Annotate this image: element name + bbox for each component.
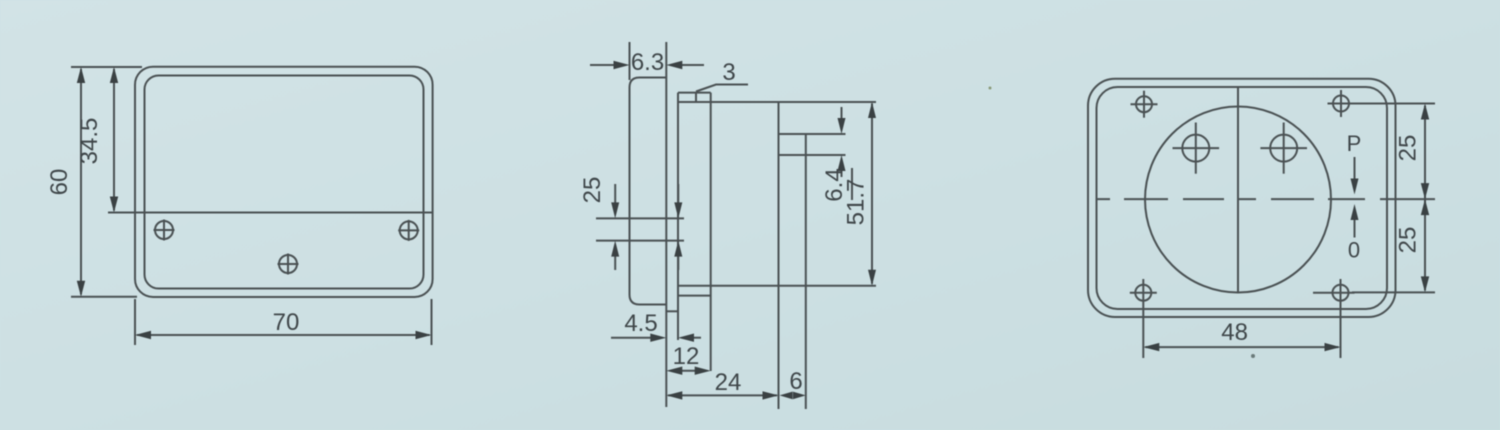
screw S1 circle [155,221,173,239]
dim 4.5 arrow left [678,334,694,342]
corner screw hole BL circle [1135,285,1151,301]
back outer case outline [1088,79,1396,317]
dim 51.7 arrow down [868,270,876,286]
bottom snap tab bottom edge [678,295,711,297]
dim 48 extension left [1142,279,1144,358]
dim 25 extension top [1352,103,1435,105]
corner screw hole TL circle [1136,96,1152,112]
dim 6.3 arrow left (tip on flange) [666,61,682,69]
dim 25 arrows right pair [674,202,682,218]
dim 60 extension line bottom [71,296,137,298]
svg-text:70: 70 [273,309,300,336]
screw S1 cross [154,229,175,231]
dust speck 2 [1251,354,1255,358]
dim 25 arrow tails [614,184,616,203]
dim 6.4 arrow tails [841,107,843,119]
dim 48 extension right [1340,279,1342,358]
back dashed centre line [1097,198,1365,200]
dim 24 line [668,394,777,396]
front inner bezel outline [145,76,424,289]
front scale divider line [108,212,433,214]
side bezel outline [630,78,667,305]
dim 60 arrow down [77,281,85,297]
svg-text:25: 25 [1395,135,1422,162]
flange-body tick [666,310,678,312]
dim 48 arrow left [1143,343,1159,351]
svg-text:0: 0 [1348,238,1360,263]
leader line for 3 [696,85,748,92]
dim 60 arrow up [77,67,85,83]
stud hole left circle [1182,135,1209,162]
svg-text:6.3: 6.3 [631,49,664,76]
dim 70 arrow right [416,331,432,339]
terminal top line [779,133,846,135]
svg-text:25: 25 [579,177,606,204]
dim 34.5 arrow up [110,67,118,83]
dim 25 extension middle [1380,198,1435,200]
dim 6.4 underline [851,168,853,200]
dim 70 extension line left [134,299,136,345]
dust speck 1 [989,87,992,90]
dim 25 arrows left pair [611,202,619,218]
dim 6.3 arrow tails [590,64,616,66]
svg-text:25: 25 [1395,227,1422,254]
back big circle [1145,107,1331,293]
dim 6.4 arrow down [838,118,846,134]
dim 60 extension line top [71,66,142,68]
dim 70 line [137,334,430,336]
dim 25 arrow down mid [1421,183,1429,199]
dim 25 arrow up top [1421,104,1429,120]
back inner case outline [1097,87,1388,309]
dim 34.5 arrow down [110,197,118,213]
pointer window top line (dim 25) [596,217,684,219]
bezel left extension line (dim 6.3) [629,42,631,80]
svg-text:3: 3 [722,59,735,86]
dim 25 arrow down bottom [1421,276,1429,292]
front outer case outline [135,67,433,297]
dim 48 line [1145,346,1338,348]
dim 12 arrow left [666,367,682,375]
dim 25 line [1424,106,1426,291]
svg-text:6: 6 [789,368,802,395]
back center vertical line [1237,88,1239,293]
dim 12 line [680,370,697,372]
flange line [665,42,667,407]
0 pointer arrow up [1351,204,1359,220]
svg-text:24: 24 [715,369,742,396]
dim 24 arrow right [763,391,779,399]
screw S2 circle [400,221,418,239]
dim 25 extension bottom [1352,291,1435,293]
screw S2 cross [398,229,419,231]
body top edge [678,101,876,103]
dim 12 arrow right [695,367,711,375]
top snap tab divider [695,93,697,103]
dim 48 arrow right [1325,343,1341,351]
dim 51.7 line [871,104,873,284]
P arrow tail [1354,157,1356,180]
svg-text:48: 48 [1221,319,1248,346]
dim 70 extension line right [431,299,433,345]
dim 34.5 line [113,69,115,211]
svg-text:51.7: 51.7 [843,179,870,226]
stud hole right circle [1270,135,1297,162]
corner screw hole BR circle [1333,285,1349,301]
P pointer arrow down [1351,179,1359,195]
dim 4.5 arrow tails [611,337,651,339]
body bottom edge [678,285,876,287]
screw S3 cross [278,263,299,265]
dim 51.7 arrow up [868,102,876,118]
svg-text:P: P [1347,131,1362,156]
dim 6 arrow right [793,392,806,400]
svg-text:4.5: 4.5 [624,310,657,337]
dim 6 arrow left [780,392,793,400]
svg-text:34.5: 34.5 [76,118,103,165]
terminal bottom line [779,154,846,156]
corner screw hole TR circle [1333,96,1349,112]
svg-text:12: 12 [673,343,700,370]
snap tab back line [710,93,712,371]
body front line [677,93,679,340]
dim 60 line [80,69,82,295]
body back line [778,102,780,410]
screw S3 circle [279,255,297,273]
dim 70 arrow left [135,331,151,339]
dim 24 arrow left [666,391,682,399]
svg-text:60: 60 [46,169,73,196]
dim 6.4 arrow up [838,155,846,171]
dim 25 arrow up mid [1421,199,1429,215]
0 arrow tail [1354,219,1356,238]
top snap tab top edge [678,92,711,94]
terminal screw line [805,134,807,409]
pointer window bottom line (dim 25) [596,240,684,242]
dim 4.5 arrow right [650,334,666,342]
dim 6.3 arrow right (tip on bezel left) [614,61,630,69]
